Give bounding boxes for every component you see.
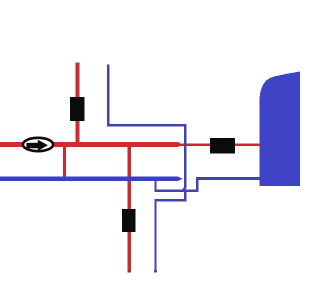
wire: blue drop crossing red pipe	[184, 124, 187, 186]
pump P1 (ellipse with flow arrow)	[23, 138, 53, 151]
node: dark tip at bottom of red drop	[128, 270, 131, 272]
wire: blue loop right riser between A and B	[184, 191, 186, 200]
wire: thick blue return main	[0, 176, 178, 181]
wire: blue stub from return main down to loop	[154, 181, 156, 192]
wire: blue riser (vertical, top)	[107, 65, 110, 127]
wire: thin red pipe from component K2 to tank T1	[233, 143, 260, 146]
wire: thin blue pipe to tank T1	[196, 177, 260, 180]
component K3 (black block on lower red drop)	[122, 209, 136, 232]
wire: blue loop lower horizontal B	[154, 199, 186, 202]
wire: red drop (long vertical through blue main)	[128, 147, 131, 272]
wire: blue upper horizontal run	[107, 124, 186, 127]
wire: blue loop upper horizontal A	[154, 189, 198, 192]
node: dark tip at bottom of blue drop	[154, 270, 157, 273]
component K2 (black block on thin red pipe)	[210, 138, 235, 153]
wire: red drop between mains	[63, 146, 66, 177]
wire: red riser (vertical, top left)	[76, 63, 80, 145]
wire: blue long drop to bottom	[154, 201, 156, 273]
wire: jog joining blue drop to return loop	[182, 185, 187, 192]
tank T1 (expansion vessel, blue, clipped at right edge)	[260, 72, 301, 187]
component K1 (black block on red riser)	[70, 97, 85, 121]
wire: thin red pipe from main to component K2	[176, 143, 212, 146]
wire: blue riser to tank line	[196, 178, 198, 192]
wire: thick red supply pipe (horizontal main)	[0, 142, 178, 147]
